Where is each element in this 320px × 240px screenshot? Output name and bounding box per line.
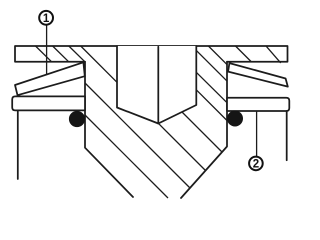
svg-text:2: 2 (253, 159, 259, 171)
svg-text:1: 1 (43, 13, 50, 25)
